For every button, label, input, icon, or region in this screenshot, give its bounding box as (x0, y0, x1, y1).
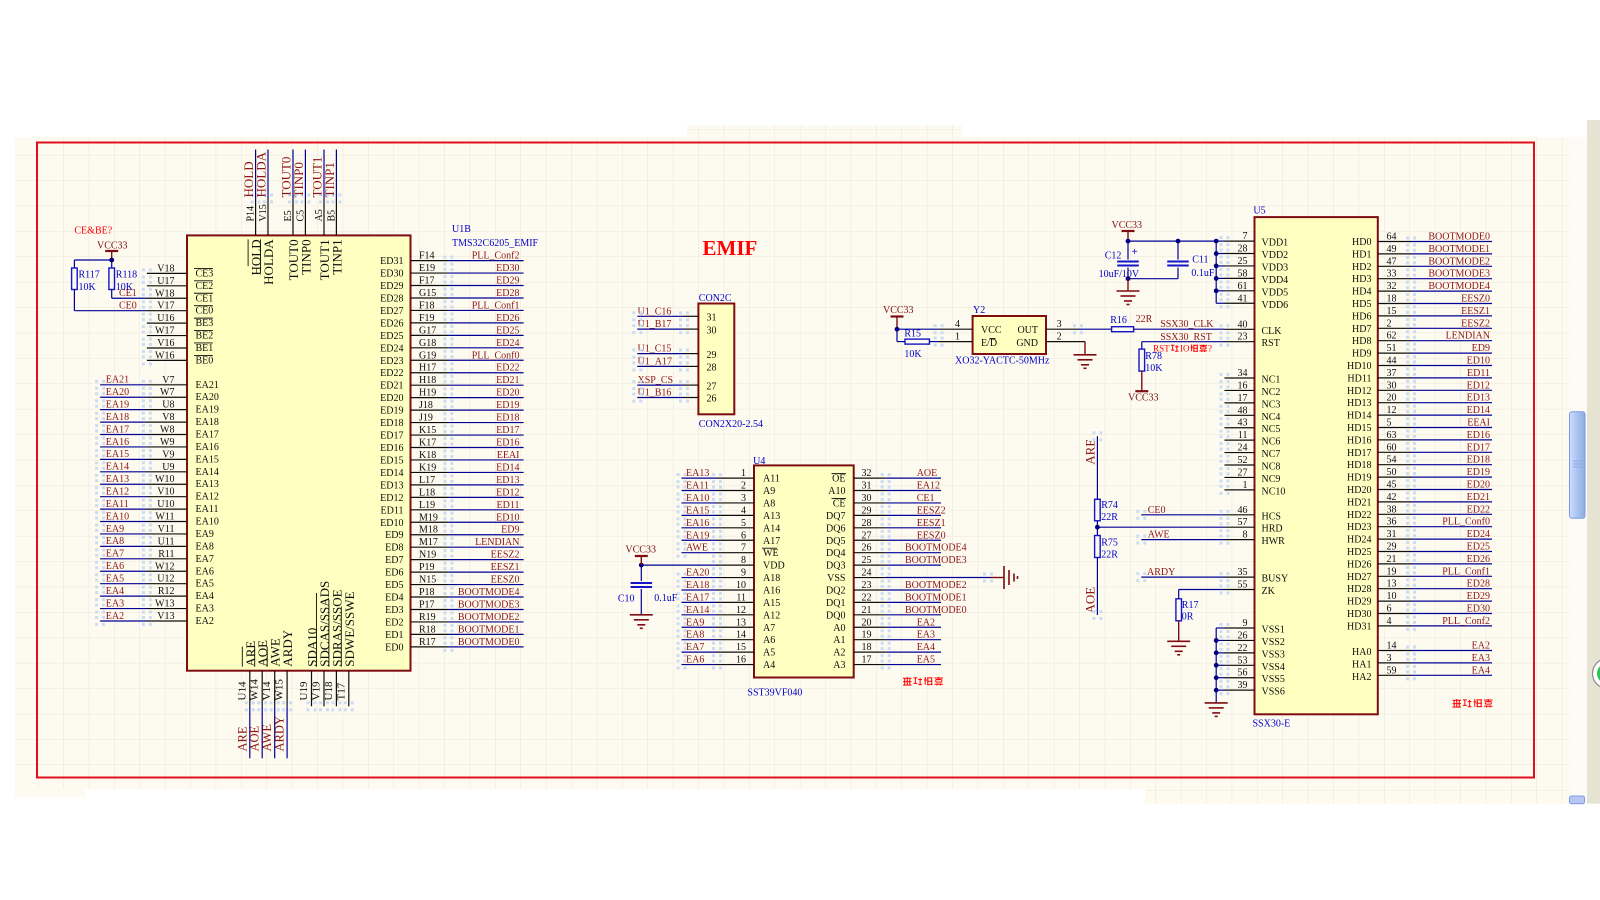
U1B pin P14 HOLD (255, 198, 257, 235)
svg-text:NC7: NC7 (1262, 449, 1281, 460)
svg-text:ED25: ED25 (1467, 542, 1490, 553)
svg-text:24: 24 (862, 568, 872, 579)
wire net EA13 (682, 477, 718, 479)
wire net ED20 (448, 397, 523, 399)
svg-text:ED20: ED20 (1467, 480, 1490, 491)
wire net BOOTMODE2 (886, 589, 941, 591)
svg-text:NC9: NC9 (1262, 474, 1281, 485)
junction VSS bus (1214, 638, 1219, 643)
svg-text:CE1: CE1 (119, 288, 137, 299)
svg-text:ED24: ED24 (496, 338, 519, 349)
wire net ED9 (448, 534, 523, 536)
wire net EA12 (100, 496, 147, 498)
svg-text:EA11: EA11 (686, 481, 709, 492)
svg-text:EESZ2: EESZ2 (1461, 318, 1490, 329)
svg-text:18: 18 (862, 642, 872, 653)
U4 pin 6 A17 (717, 539, 754, 541)
svg-text:56: 56 (1238, 668, 1248, 679)
svg-text:32: 32 (862, 468, 872, 479)
svg-text:CE0: CE0 (1148, 505, 1166, 516)
svg-text:6: 6 (741, 530, 746, 541)
U4 pin 4 A13 (717, 514, 754, 516)
svg-text:5: 5 (741, 518, 746, 529)
wire net ED19 (1411, 476, 1492, 478)
svg-text:HD16: HD16 (1347, 435, 1371, 446)
svg-text:30: 30 (1387, 380, 1397, 391)
svg-text:A9: A9 (763, 486, 775, 497)
U1B pin K15 ED17 (411, 434, 449, 436)
svg-text:ED31: ED31 (380, 256, 403, 267)
U4 pin 13 A7 (717, 626, 754, 628)
wire net AWE (274, 706, 276, 758)
U4 pin 8 VDD (717, 564, 754, 566)
svg-text:HD26: HD26 (1347, 559, 1371, 570)
svg-text:EA4: EA4 (1472, 665, 1490, 676)
resistor R117 (72, 268, 78, 290)
CON2C pin 27 (684, 384, 698, 386)
svg-text:ED29: ED29 (380, 281, 403, 292)
U5 pin 18 HD5 (1378, 303, 1411, 305)
svg-text:L19: L19 (419, 500, 435, 511)
svg-text:61: 61 (1238, 281, 1248, 292)
svg-text:ED26: ED26 (1467, 554, 1490, 565)
U1B pin P17 ED3 (411, 608, 449, 610)
svg-text:26: 26 (707, 394, 717, 405)
U1B pin V9 EA15 (147, 458, 187, 460)
svg-text:ED18: ED18 (1467, 455, 1490, 466)
svg-text:VDD3: VDD3 (1262, 262, 1289, 273)
wire C11 bottom to C12 bottom (1128, 278, 1178, 280)
svg-text:EA14: EA14 (686, 605, 709, 616)
svg-text:ED10: ED10 (1467, 356, 1490, 367)
U4 pin 29 DQ7 (854, 514, 886, 516)
svg-text:PLL_Conf0: PLL_Conf0 (1442, 517, 1490, 528)
U5 pin 20 HD13 (1378, 402, 1411, 404)
svg-text:EA12: EA12 (106, 486, 129, 497)
svg-text:ED16: ED16 (1467, 430, 1490, 441)
svg-text:ED17: ED17 (496, 425, 519, 436)
svg-text:EA2: EA2 (1472, 641, 1490, 652)
U1B pin H17 ED22 (411, 372, 449, 374)
svg-text:U16: U16 (157, 313, 174, 324)
svg-text:TINP1: TINP1 (329, 239, 344, 274)
wire net ARE (249, 706, 251, 758)
svg-text:R15: R15 (904, 329, 921, 340)
junction C12 bottom (1126, 276, 1131, 281)
svg-text:HD25: HD25 (1347, 547, 1371, 558)
wire net ED16 (1411, 439, 1492, 441)
wire net PLL_Conf2 (448, 260, 523, 262)
svg-text:BOOTMODE1: BOOTMODE1 (458, 624, 520, 635)
annotation address-order (chinese) at U5 (1453, 699, 1462, 701)
svg-text:BOOTMODE0: BOOTMODE0 (905, 605, 967, 616)
U4 pin 12 A12 (717, 614, 754, 616)
svg-text:HD10: HD10 (1347, 361, 1371, 372)
svg-text:V19: V19 (311, 681, 323, 700)
svg-text:U1_B16: U1_B16 (638, 388, 672, 399)
U4 pin 20 A0 (854, 626, 886, 628)
svg-text:TINP0: TINP0 (291, 162, 306, 197)
svg-text:R74: R74 (1101, 500, 1118, 511)
svg-text:EESZ1: EESZ1 (1461, 306, 1490, 317)
U1B pin H18 ED21 (411, 384, 449, 386)
wire VCC33 to R117/R118 tops (74, 259, 111, 261)
wire net EA11 (100, 508, 147, 510)
svg-text:OE: OE (832, 474, 845, 485)
svg-text:B5: B5 (326, 210, 337, 222)
svg-text:21: 21 (1387, 554, 1397, 565)
svg-text:J18: J18 (419, 400, 433, 411)
wire net SSX30_RST (1142, 341, 1225, 343)
svg-text:EA6: EA6 (196, 566, 214, 577)
wire net EESZ2 (448, 559, 523, 561)
svg-text:VCC: VCC (981, 325, 1002, 336)
svg-text:W14: W14 (249, 679, 261, 701)
wire net ED17 (448, 434, 523, 436)
junction R74/R75/HRD (1095, 525, 1100, 530)
svg-text:EA5: EA5 (106, 573, 124, 584)
svg-text:HD14: HD14 (1347, 411, 1371, 422)
svg-text:PLL_Conf0: PLL_Conf0 (472, 350, 520, 361)
wire net EESZ0 (448, 584, 523, 586)
wire net BOOTMODE2 (1411, 265, 1492, 267)
wire net ED22 (1411, 513, 1492, 515)
svg-text:HA0: HA0 (1352, 647, 1371, 658)
U5 pin 37 HD11 (1378, 377, 1411, 379)
U1B pin F17 ED29 (411, 285, 449, 287)
svg-text:ZK: ZK (1262, 586, 1276, 597)
U1B pin V19 SDCAS/SSADS (323, 671, 325, 707)
svg-text:22R: 22R (1101, 549, 1118, 560)
svg-text:HD8: HD8 (1352, 336, 1371, 347)
svg-text:G17: G17 (419, 325, 436, 336)
junction VDD bus top (1214, 239, 1219, 244)
svg-text:PLL_Conf2: PLL_Conf2 (472, 251, 520, 262)
wire net AOE (886, 477, 941, 479)
svg-text:24: 24 (1238, 443, 1248, 454)
svg-text:EA8: EA8 (686, 630, 704, 641)
U1B pin U18 SDRAS/SSOE (335, 671, 337, 707)
ground below R17 (1178, 621, 1180, 642)
svg-text:U8: U8 (162, 400, 174, 411)
svg-text:BOOTMODE2: BOOTMODE2 (1428, 256, 1490, 267)
scrollbar thumb (1570, 412, 1586, 519)
svg-text:CLK: CLK (1262, 326, 1283, 337)
wire net LENDIAN (448, 546, 523, 548)
svg-text:T17: T17 (335, 682, 347, 700)
U1B pin J18 ED19 (411, 409, 449, 411)
svg-text:TMS32C6205_EMIF: TMS32C6205_EMIF (452, 238, 539, 249)
svg-text:W7: W7 (160, 387, 174, 398)
svg-text:ED21: ED21 (380, 381, 403, 392)
svg-text:ED15: ED15 (380, 455, 403, 466)
svg-text:?: ? (1208, 344, 1212, 354)
svg-text:ED22: ED22 (496, 363, 519, 374)
svg-text:28: 28 (862, 518, 872, 529)
svg-text:EA20: EA20 (106, 387, 129, 398)
svg-text:17: 17 (862, 655, 872, 666)
svg-text:R78: R78 (1145, 351, 1162, 362)
ground below VSS bus (1215, 690, 1217, 703)
U5 pin 63 HD16 (1378, 439, 1411, 441)
svg-text:HD12: HD12 (1347, 386, 1371, 397)
U4 pin 17 A3 (854, 664, 886, 666)
U4 pin 11 A15 (717, 601, 754, 603)
wire net BOOTMODE3 (1411, 278, 1492, 280)
U5 pin 51 HD9 (1378, 352, 1411, 354)
U1B pin L19 ED11 (411, 509, 449, 511)
svg-text:ED9: ED9 (385, 530, 403, 541)
svg-text:DQ3: DQ3 (826, 561, 845, 572)
svg-text:VDD4: VDD4 (1262, 275, 1289, 286)
svg-text:HD27: HD27 (1347, 572, 1371, 583)
svg-text:U9: U9 (162, 462, 174, 473)
svg-text:HD9: HD9 (1352, 349, 1371, 360)
wire net ED18 (1411, 464, 1492, 466)
svg-text:EA21: EA21 (196, 380, 219, 391)
U1B pin W8 EA17 (147, 434, 187, 436)
wire net EA20 (682, 577, 718, 579)
svg-text:BE0: BE0 (196, 355, 214, 366)
svg-text:EA18: EA18 (196, 417, 219, 428)
svg-text:HA1: HA1 (1352, 659, 1371, 670)
U4 pin 31 A10 (854, 490, 886, 492)
svg-text:49: 49 (1387, 244, 1397, 255)
svg-text:EESZ2: EESZ2 (917, 505, 946, 516)
svg-text:F19: F19 (419, 313, 435, 324)
U4 pin 7 WE (717, 552, 754, 554)
CON2C pin 30 (684, 328, 698, 330)
svg-text:NC2: NC2 (1262, 387, 1281, 398)
U1B pin V18 CE3 (147, 272, 187, 274)
svg-text:HD7: HD7 (1352, 324, 1371, 335)
svg-text:18: 18 (1387, 294, 1397, 305)
svg-text:R75: R75 (1101, 538, 1118, 549)
svg-text:ED14: ED14 (380, 468, 403, 479)
U4 pin 25 DQ3 (854, 564, 886, 566)
svg-text:ARE: ARE (1083, 439, 1098, 465)
svg-text:ED20: ED20 (496, 388, 519, 399)
svg-text:BE2: BE2 (196, 331, 214, 342)
U4 pin 10 A16 (717, 589, 754, 591)
U5 pin 61 VDD5 (1225, 290, 1255, 292)
U5 pin 17 NC3 (1225, 402, 1255, 404)
U1B pin E5 TOUT0 (292, 198, 294, 235)
wire net EEAI (1411, 427, 1492, 429)
svg-text:ED16: ED16 (380, 443, 403, 454)
svg-text:U1_A17: U1_A17 (638, 356, 672, 367)
svg-text:EA7: EA7 (106, 549, 124, 560)
U1B pin V13 EA2 (147, 620, 187, 622)
wire RST down to R78 (1141, 342, 1143, 349)
U1B pin T17 SDWE/SSWE (348, 671, 350, 707)
svg-text:GND: GND (1016, 338, 1038, 349)
svg-text:ED22: ED22 (380, 368, 403, 379)
U1B pin W17 BE2 (147, 335, 187, 337)
svg-text:ED24: ED24 (380, 343, 403, 354)
wire net EA7 (682, 651, 718, 653)
svg-text:1: 1 (1243, 480, 1248, 491)
wire net TOUT1 (323, 150, 325, 199)
svg-text:VSS6: VSS6 (1262, 687, 1285, 698)
svg-text:25: 25 (862, 555, 872, 566)
svg-text:37: 37 (1387, 368, 1397, 379)
svg-text:TINP0: TINP0 (298, 239, 313, 274)
Y2 pin 3 (1046, 328, 1078, 330)
svg-text:ED21: ED21 (1467, 492, 1490, 503)
svg-text:21: 21 (862, 605, 872, 616)
svg-text:U1_B17: U1_B17 (638, 319, 672, 330)
svg-text:V16: V16 (157, 338, 174, 349)
svg-text:V11: V11 (158, 524, 175, 535)
wire net ED11 (448, 509, 523, 511)
svg-text:K15: K15 (419, 425, 436, 436)
wire net EA17 (100, 434, 147, 436)
svg-text:EA9: EA9 (686, 617, 704, 628)
wire net U1_A17 (637, 365, 684, 367)
svg-text:K17: K17 (419, 438, 436, 449)
connector CON2C body (698, 304, 734, 415)
scrollbar track soft edge (1570, 137, 1587, 804)
U5 pin 64 HD0 (1378, 241, 1411, 243)
U1B pin K18 ED15 (411, 459, 449, 461)
svg-text:35: 35 (1238, 567, 1248, 578)
resistor R78 (1139, 349, 1145, 371)
svg-text:HD6: HD6 (1352, 311, 1371, 322)
svg-text:VCC33: VCC33 (883, 305, 914, 316)
U4 pin 32 OE (854, 477, 886, 479)
wire net HOLDA (267, 150, 269, 199)
power VCC33 below R78 (1141, 371, 1143, 391)
U5 pin 43 NC5 (1225, 427, 1255, 429)
U4 pin 2 A9 (717, 490, 754, 492)
U1B pin P18 ED4 (411, 596, 449, 598)
svg-text:50: 50 (1387, 467, 1397, 478)
wire net TOUT0 (292, 150, 294, 199)
svg-text:ED24: ED24 (1467, 529, 1490, 540)
svg-text:27: 27 (707, 381, 717, 392)
svg-text:SSX30_CLK: SSX30_CLK (1160, 319, 1214, 330)
svg-text:51: 51 (1387, 343, 1397, 354)
svg-text:NC6: NC6 (1262, 437, 1281, 448)
U1B pin H19 ED20 (411, 397, 449, 399)
svg-text:ED11: ED11 (381, 505, 404, 516)
U1B pin V16 BE1 (147, 347, 187, 349)
svg-text:12: 12 (736, 605, 746, 616)
svg-text:10K: 10K (79, 282, 97, 293)
svg-text:EA17: EA17 (686, 592, 709, 603)
svg-text:NC8: NC8 (1262, 462, 1281, 473)
wire net PLL_Conf1 (1411, 575, 1492, 577)
svg-text:EA3: EA3 (196, 604, 214, 615)
wire net U1_C16 (637, 315, 684, 317)
wire net ED17 (1411, 451, 1492, 453)
wire net ARE (vertical) (1096, 436, 1098, 499)
U5 pin 40 CLK (1225, 328, 1255, 330)
junction VSS bus (1214, 650, 1219, 655)
wire junction to U5 HRD (1097, 526, 1224, 528)
junction VDD bus (1214, 276, 1219, 281)
svg-text:HD11: HD11 (1347, 373, 1371, 384)
U5 pin 44 HD10 (1378, 365, 1411, 367)
svg-text:22R: 22R (1101, 512, 1118, 523)
svg-text:BOOTMODE1: BOOTMODE1 (1428, 244, 1490, 255)
svg-text:ED1: ED1 (385, 630, 403, 641)
svg-text:W16: W16 (155, 350, 174, 361)
U5 pin 42 HD21 (1378, 501, 1411, 503)
wire net CE0 to U5 HCS (1141, 514, 1224, 516)
svg-text:BOOTMODE2: BOOTMODE2 (458, 612, 520, 623)
U1B pin N15 ED5 (411, 584, 449, 586)
svg-text:EA4: EA4 (917, 642, 935, 653)
wire net ED28 (1411, 588, 1492, 590)
svg-text:0R: 0R (1182, 612, 1194, 623)
svg-text:VDD1: VDD1 (1262, 238, 1289, 249)
svg-text:EA15: EA15 (686, 505, 709, 516)
wire net ED12 (1411, 389, 1492, 391)
U5 pin 53 VSS4 (1225, 664, 1255, 666)
svg-text:ED14: ED14 (496, 462, 519, 473)
wire U5 VSS bus (1215, 628, 1217, 690)
svg-text:W13: W13 (155, 599, 174, 610)
U5 pin 24 NC7 (1225, 452, 1255, 454)
svg-text:E/D: E/D (981, 338, 997, 349)
svg-text:EA19: EA19 (106, 399, 129, 410)
U5 pin 33 HD3 (1378, 278, 1411, 280)
svg-text:A10: A10 (828, 486, 845, 497)
svg-text:55: 55 (1238, 580, 1248, 591)
svg-text:L17: L17 (419, 475, 435, 486)
wire net EA11 (682, 490, 718, 492)
IC U1B body (187, 235, 411, 670)
U1B pin U19 SDA10 (311, 671, 313, 707)
svg-text:EA20: EA20 (686, 568, 709, 579)
U5 pin 14 HA0 (1378, 650, 1411, 652)
U5 pin 60 HD17 (1378, 451, 1411, 453)
U4 pin 19 A1 (854, 639, 886, 641)
svg-text:V14: V14 (261, 681, 273, 700)
U1B pin M18 ED9 (411, 534, 449, 536)
svg-text:20: 20 (862, 617, 872, 628)
wire net EA15 (100, 458, 147, 460)
svg-text:BUSY: BUSY (1262, 574, 1289, 585)
svg-text:30: 30 (707, 325, 717, 336)
wire net TINP0 (304, 150, 306, 199)
U5 pin 22 VSS3 (1225, 652, 1255, 654)
svg-text:P19: P19 (419, 562, 435, 573)
wire net EA4 (100, 595, 147, 597)
svg-text:EA2: EA2 (917, 617, 935, 628)
wire net EESZ2 (1411, 327, 1492, 329)
svg-text:15: 15 (736, 642, 746, 653)
svg-text:A5: A5 (763, 648, 775, 659)
svg-text:EA17: EA17 (196, 430, 219, 441)
svg-text:ED17: ED17 (1467, 442, 1490, 453)
svg-text:VDD2: VDD2 (1262, 250, 1289, 261)
U5 pin 47 HD2 (1378, 265, 1411, 267)
svg-text:26: 26 (862, 543, 872, 554)
svg-text:1: 1 (741, 468, 746, 479)
svg-text:OUT: OUT (1017, 325, 1038, 336)
U5 pin 56 VSS5 (1225, 677, 1255, 679)
wire net EA4 (886, 651, 941, 653)
CON2C pin 28 (684, 365, 698, 367)
U5 pin 4 HD31 (1378, 625, 1411, 627)
wire net EA16 (100, 446, 147, 448)
svg-text:A16: A16 (763, 585, 780, 596)
CON2C pin 31 (684, 315, 698, 317)
wire net ED20 (1411, 489, 1492, 491)
